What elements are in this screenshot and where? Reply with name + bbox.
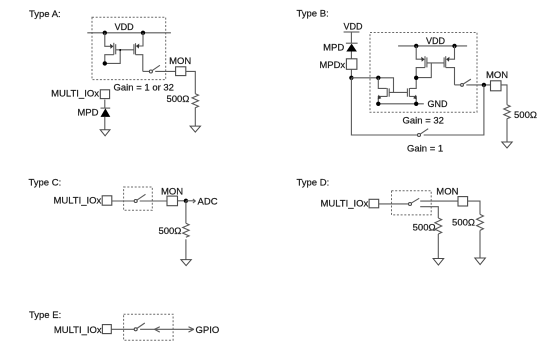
svg-text:MON: MON (436, 186, 458, 197)
svg-text:Type A:: Type A: (29, 9, 61, 20)
svg-text:500Ω: 500Ω (514, 110, 537, 121)
svg-text:500Ω: 500Ω (158, 226, 181, 237)
svg-text:Type E:: Type E: (29, 310, 61, 321)
svg-text:MULTI_IOx: MULTI_IOx (320, 198, 368, 209)
svg-text:Type B:: Type B: (297, 9, 329, 20)
svg-text:MON: MON (486, 70, 508, 81)
svg-text:MULTI_IOx: MULTI_IOx (51, 89, 99, 100)
svg-text:MON: MON (169, 56, 191, 67)
svg-text:MULTI_IOx: MULTI_IOx (53, 196, 101, 207)
svg-text:Gain = 32: Gain = 32 (403, 116, 444, 127)
svg-text:Type D:: Type D: (297, 177, 330, 188)
svg-text:500Ω: 500Ω (413, 222, 436, 233)
svg-text:MPD: MPD (77, 108, 98, 119)
svg-text:GND: GND (428, 99, 449, 109)
svg-text:Gain = 1: Gain = 1 (407, 144, 443, 155)
svg-text:VDD: VDD (115, 22, 135, 32)
svg-text:Gain = 1 or 32: Gain = 1 or 32 (114, 83, 174, 94)
svg-text:500Ω: 500Ω (452, 218, 475, 229)
svg-text:GPIO: GPIO (196, 325, 220, 336)
svg-text:MPD: MPD (323, 42, 344, 53)
svg-text:Type C:: Type C: (29, 177, 62, 188)
svg-text:VDD: VDD (344, 22, 364, 32)
svg-text:VDD: VDD (426, 36, 446, 46)
svg-text:MULTI_IOx: MULTI_IOx (54, 325, 102, 336)
svg-text:ADC: ADC (198, 196, 218, 207)
svg-text:500Ω: 500Ω (166, 94, 189, 105)
svg-text:MPDx: MPDx (319, 60, 345, 71)
